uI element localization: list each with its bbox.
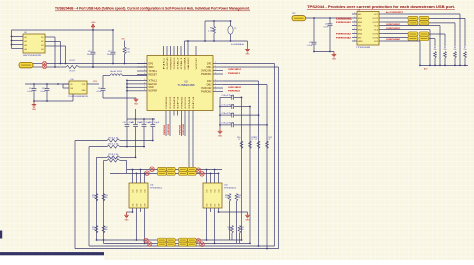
wire OUT2 to beads	[384, 21, 408, 23]
svg-text:OUT3: OUT3	[372, 34, 378, 36]
ground symbol crystal	[247, 46, 249, 49]
svg-text:OVRCUR2Z: OVRCUR2Z	[228, 87, 242, 89]
U11 top pin stubs	[132, 170, 134, 184]
capacitor C6	[231, 95, 233, 100]
svg-text:DM4: DM4	[189, 95, 191, 109]
capacitor C12	[143, 119, 145, 124]
svg-text:OVRCUR3Z: OVRCUR3Z	[386, 28, 401, 30]
svg-text:15k: 15k	[105, 229, 108, 231]
svg-text:RCOT: RCOT	[70, 71, 76, 73]
svg-text:IO3: IO3	[214, 190, 216, 193]
capacitor C10	[126, 119, 128, 124]
wire right col F	[236, 201, 238, 243]
resistor R12	[124, 41, 126, 48]
svg-text:0.1uF: 0.1uF	[40, 91, 46, 93]
IC U10 body	[69, 81, 87, 94]
U12 bottom pin stubs	[206, 208, 208, 212]
resistor R4	[434, 52, 437, 59]
ferrite bead bottom row B	[158, 242, 167, 246]
svg-text:DP2: DP2	[207, 81, 212, 83]
svg-text:OVRCUR1Z: OVRCUR1Z	[228, 69, 242, 71]
capacitor C11	[135, 119, 137, 124]
svg-text:2: 2	[215, 65, 216, 67]
svg-text:GANGED: GANGED	[187, 57, 190, 70]
svg-text:15k: 15k	[92, 229, 95, 231]
wire stub top pins	[137, 63, 147, 65]
wire OUT3 to beads	[384, 33, 408, 35]
U5 top pin stubs	[163, 46, 165, 56]
svg-text:IO5: IO5	[206, 204, 208, 207]
crystal Y1	[230, 21, 232, 26]
wire row cap C8	[220, 114, 231, 116]
ferrite bead bottom row A	[179, 238, 188, 242]
svg-text:4.7uF: 4.7uF	[96, 91, 102, 93]
svg-text:SUSPND: SUSPND	[167, 57, 169, 70]
svg-text:RESET: RESET	[149, 75, 158, 77]
svg-text:GND: GND	[358, 41, 363, 43]
wire OVRCUR3 net drop	[169, 116, 171, 137]
resistor R28	[228, 194, 231, 202]
svg-text:OVRCUR1: OVRCUR1	[201, 70, 212, 72]
wire row cap C7	[220, 106, 231, 108]
wire DP2 route	[223, 80, 259, 82]
wire U8 pin to node	[50, 36, 55, 38]
capacitor C11 lower lead	[135, 127, 137, 157]
wire crystal ground drop	[247, 41, 249, 46]
svg-text:R19 1.5k: R19 1.5k	[109, 157, 119, 159]
resistor R30	[231, 226, 234, 234]
resistor R17	[107, 145, 120, 148]
svg-text:PWRON4Z: PWRON4Z	[336, 37, 352, 40]
svg-text:TPD4S012: TPD4S012	[224, 188, 236, 190]
wire OUT1 to beads	[384, 17, 408, 19]
power port +5V0	[92, 27, 94, 30]
svg-text:7: 7	[144, 86, 145, 88]
svg-text:TSTPLL: TSTPLL	[149, 71, 158, 73]
svg-text:OUT4: OUT4	[372, 38, 378, 40]
no-ERC marker bottom right B	[200, 242, 205, 247]
U10 output wire	[87, 83, 99, 85]
JP1 pin wires	[33, 63, 42, 65]
wire row cap C9	[220, 124, 231, 126]
svg-text:IO1: IO1	[132, 190, 134, 193]
resistor R8 feedback	[213, 21, 215, 27]
capacitor C16 lead	[92, 30, 94, 52]
wire col cap1 vertical	[241, 97, 243, 240]
svg-text:OVRCUR3Z: OVRCUR3Z	[168, 123, 170, 135]
wire row R17	[89, 146, 107, 148]
resistor R20	[240, 141, 243, 149]
+5V0 rail wire	[12, 29, 114, 31]
wire DM3 drop	[188, 116, 190, 170]
wire bead2 out	[429, 22, 455, 24]
resistor R18	[107, 156, 120, 159]
wire OC2 route	[384, 25, 440, 27]
wire gnd symbol stem to cap row	[135, 109, 137, 119]
ferrite bead top row B	[179, 171, 188, 175]
svg-text:PWRON3Z: PWRON3Z	[164, 124, 166, 135]
no-ERC marker bottom left B	[147, 242, 152, 247]
svg-text:A4: A4	[25, 48, 27, 51]
svg-text:PWRON2Z: PWRON2Z	[336, 22, 352, 24]
wire row R16	[75, 140, 107, 142]
svg-text:C9=27pF: C9=27pF	[222, 123, 235, 125]
svg-text:JP3: JP3	[292, 13, 295, 15]
wire net tie vertical	[126, 161, 128, 174]
svg-text:2: 2	[215, 79, 216, 81]
resistor RCOT	[66, 65, 79, 68]
svg-text:RCOT: RCOT	[70, 60, 76, 62]
svg-text:IO1: IO1	[206, 190, 208, 193]
svg-text:VCC: VCC	[196, 56, 198, 69]
wire OC4 vertical	[419, 41, 421, 65]
svg-text:TPS2044B: TPS2044B	[356, 47, 371, 49]
wire OC2 vertical	[439, 26, 441, 66]
U6 left pin stubs	[352, 13, 357, 15]
no-ERC marker row A right	[196, 168, 201, 173]
svg-text:B2: B2	[41, 41, 43, 43]
wire JP3 to U6	[306, 17, 353, 19]
wire right col H	[239, 233, 241, 243]
svg-text:TPS2044 - Provides over curren: TPS2044 - Provides over current protecti…	[307, 5, 455, 9]
svg-text:OVRCUR2: OVRCUR2	[201, 88, 212, 90]
inductor L1 bead wire	[103, 75, 110, 77]
ground symbol U5 left	[135, 98, 137, 99]
resistor R16	[107, 139, 120, 142]
svg-text:C6=27pF: C6=27pF	[222, 95, 235, 97]
ferrite bead bottom row A	[187, 238, 196, 242]
svg-text:GND: GND	[134, 104, 139, 106]
ferrite bead bottom row A	[166, 238, 175, 242]
resistor R29	[235, 194, 238, 202]
svg-text:IO7: IO7	[140, 204, 142, 207]
svg-text:5: 5	[144, 79, 145, 81]
svg-text:GND: GND	[125, 220, 130, 222]
svg-text:IO2: IO2	[136, 190, 138, 193]
capacitor C8	[231, 113, 233, 118]
resistor R24	[95, 194, 98, 202]
svg-text:NC: NC	[163, 56, 165, 70]
sheet lower-left outside margin	[0, 255, 104, 260]
svg-text:OUT1: OUT1	[372, 18, 378, 20]
svg-text:15k: 15k	[454, 49, 457, 51]
U12 top pin stubs	[206, 170, 208, 184]
svg-text:B3: B3	[41, 45, 43, 47]
wire port3 row A	[127, 169, 222, 171]
svg-text:4.7uF: 4.7uF	[323, 26, 329, 28]
U5 bottom pin stubs	[165, 111, 167, 116]
svg-text:DM0: DM0	[149, 67, 155, 69]
svg-text:+5V0: +5V0	[91, 22, 97, 24]
resistor R19	[107, 159, 120, 162]
svg-text:2: 2	[215, 62, 216, 64]
svg-text:TPD4S012: TPD4S012	[150, 188, 162, 190]
svg-text:PWRON3: PWRON3	[166, 96, 168, 109]
svg-text:25uF: 25uF	[87, 54, 92, 56]
wire pulldown rail	[420, 64, 468, 66]
resistor R23	[266, 141, 269, 149]
wire bottom loop D	[75, 248, 279, 250]
svg-text:GND: GND	[246, 54, 251, 56]
svg-text:C10: C10	[123, 122, 126, 124]
wire DP3 drop	[192, 116, 194, 174]
capacitor C20	[313, 18, 315, 42]
no-ERC marker on JP1 wires	[42, 62, 46, 66]
IC U12 ESD body	[203, 183, 222, 208]
wire regulator ground rail	[34, 100, 73, 102]
ground symbol U11	[126, 212, 128, 215]
svg-text:2: 2	[215, 83, 216, 85]
wire row R19	[104, 160, 108, 162]
wire U12 to bottom rows	[206, 212, 208, 240]
svg-text:EEDATA: EEDATA	[183, 57, 186, 70]
resistor R27	[102, 226, 105, 234]
svg-text:IO5: IO5	[132, 204, 134, 207]
ferrite bead top row A	[166, 167, 175, 171]
wire XTAL2 up	[184, 41, 186, 46]
IC U6 TPS2044 body	[357, 12, 379, 46]
svg-text:DP1: DP1	[207, 63, 212, 65]
ferrite bead port1 a2	[419, 16, 429, 20]
U8 left pins bus wire	[11, 30, 13, 49]
svg-text:PWRON4Z: PWRON4Z	[179, 124, 182, 135]
wire port1 DM vertical	[278, 67, 280, 249]
ferrite bead port3 a2	[419, 32, 429, 36]
U10 bottom pin to ground rail	[72, 94, 74, 101]
svg-text:XTAL1: XTAL1	[149, 79, 158, 82]
svg-text:15k: 15k	[464, 49, 467, 51]
svg-text:OVRCUR4Z: OVRCUR4Z	[182, 123, 185, 135]
svg-text:IO2: IO2	[210, 190, 212, 193]
svg-text:PWRON1: PWRON1	[201, 74, 212, 76]
svg-text:A1: A1	[25, 36, 27, 39]
svg-text:IO7: IO7	[214, 204, 216, 207]
svg-text:B4: B4	[41, 49, 43, 51]
svg-text:OVRCUR3: OVRCUR3	[170, 96, 172, 109]
capacitor C9	[231, 123, 233, 128]
wire OUT4 to beads	[384, 37, 408, 39]
capacitor C14	[33, 84, 35, 88]
svg-text:OUT2: OUT2	[372, 22, 378, 24]
wire bottom loop C	[89, 245, 275, 247]
wire col cap4 vertical	[266, 85, 268, 249]
svg-text:DM1: DM1	[207, 67, 213, 69]
svg-text:XTAL2: XTAL2	[176, 56, 179, 69]
svg-text:C7=27pF: C7=27pF	[222, 104, 235, 106]
wire DM0 upper	[47, 63, 147, 65]
sheet border bottom-left bar	[0, 252, 104, 255]
svg-text:A2: A2	[25, 40, 27, 43]
wire crystal left vertical	[204, 21, 206, 41]
svg-text:PWRON1Z: PWRON1Z	[228, 73, 241, 75]
wire left loop vertical A	[74, 141, 76, 249]
svg-text:15k: 15k	[225, 197, 228, 199]
resistor R7	[464, 52, 467, 59]
wire left loop vertical B	[88, 147, 90, 246]
svg-text:A3: A3	[25, 44, 27, 47]
svg-text:15k: 15k	[92, 197, 95, 199]
wire bottom row A	[97, 239, 242, 241]
svg-text:IO6: IO6	[136, 204, 138, 207]
wire cap row horizontal	[127, 118, 155, 120]
wire bead4 out	[429, 38, 435, 40]
no-ERC marker bottom left A	[144, 238, 149, 243]
svg-text:GND: GND	[149, 87, 154, 89]
ferrite bead port1 a1	[408, 16, 418, 20]
capacitor C13	[152, 119, 154, 124]
svg-text:1.5k: 1.5k	[126, 51, 130, 53]
svg-text:PWRON2: PWRON2	[201, 91, 212, 93]
capacitor C15	[46, 84, 48, 88]
svg-text:C13: C13	[148, 122, 151, 124]
svg-text:GND: GND	[32, 109, 37, 111]
svg-text:OVRCUR4Z: OVRCUR4Z	[386, 38, 401, 41]
ground symbol U12	[247, 212, 249, 215]
no-ERC marker row B right	[200, 172, 205, 177]
svg-text:3mH 10%: 3mH 10%	[110, 71, 122, 73]
wire caps gnd bus	[219, 97, 221, 128]
wire OC4 route	[384, 40, 420, 42]
svg-text:27: 27	[255, 139, 257, 141]
U8 left pin stubs	[16, 36, 23, 38]
wire left col C	[96, 157, 98, 240]
U11 ground wire	[127, 211, 133, 213]
U11 bottom pin stubs	[132, 208, 134, 212]
wire row cap C6	[220, 96, 231, 98]
svg-text:C11: C11	[131, 122, 134, 124]
resistor R22	[257, 141, 260, 149]
resistor R21	[249, 141, 252, 149]
wire col cap3 vertical	[258, 81, 260, 246]
sheet border left edge mark	[0, 231, 2, 239]
wire U8 pin2 down	[50, 41, 61, 43]
svg-text:TSTMODE: TSTMODE	[174, 57, 176, 70]
U12 ground wire	[219, 211, 248, 213]
capacitor C17 lead	[112, 30, 114, 52]
ferrite bead top row A	[158, 167, 167, 171]
ferrite bead top row B	[166, 171, 175, 175]
capacitor C19	[329, 18, 331, 24]
svg-text:2: 2	[215, 90, 216, 92]
svg-text:15k: 15k	[241, 229, 244, 231]
capacitor C13 lower lead	[152, 127, 154, 141]
ferrite bead port3 a1	[408, 32, 418, 36]
connector JP3	[292, 16, 306, 21]
svg-text:TUSB2046B - 4 Port USB Hub (fu: TUSB2046B - 4 Port USB Hub (full/low spe…	[55, 7, 250, 11]
wire port3 row B	[110, 172, 218, 174]
ferrite bead bottom row A	[158, 238, 167, 242]
svg-text:IO3: IO3	[140, 190, 142, 193]
svg-text:DP0: DP0	[149, 63, 154, 65]
svg-text:1.5M: 1.5M	[208, 30, 213, 32]
svg-text:GND: GND	[218, 136, 223, 138]
svg-text:XTAL1: XTAL1	[180, 56, 183, 69]
wire DM1 route	[223, 66, 279, 68]
svg-text:R16 1.5k: R16 1.5k	[109, 137, 119, 139]
wire U11 to bottom rows	[136, 212, 138, 240]
svg-text:PWRDWN: PWRDWN	[170, 57, 172, 69]
wire row R18	[97, 156, 108, 158]
svg-text:6.000MHz: 6.000MHz	[231, 44, 244, 46]
wire OC1 route	[384, 13, 460, 15]
wire col cap2 vertical	[249, 107, 251, 244]
U10 left pin stub	[63, 83, 69, 85]
wire DP0 lower segment left	[47, 66, 66, 68]
resistor R25	[102, 194, 105, 202]
wire OVRCUR4 net drop	[184, 116, 186, 137]
svg-text:27: 27	[238, 139, 240, 141]
wire bead1 out	[429, 17, 465, 19]
wire DP0 lower segment right	[79, 66, 147, 68]
capacitor C10 lower lead	[126, 127, 128, 147]
U5 right pin stubs	[213, 63, 223, 65]
ferrite bead top row A	[187, 167, 196, 171]
wire OC3 route	[384, 29, 430, 31]
U8 right pin stubs	[45, 36, 50, 38]
svg-text:EECLK: EECLK	[149, 84, 158, 86]
resistor R6	[454, 52, 457, 59]
svg-text:TLV70033DBVR: TLV70033DBVR	[68, 96, 89, 98]
svg-text:GND: GND	[82, 90, 87, 92]
svg-text:0.1uF: 0.1uF	[27, 91, 33, 93]
no-ERC marker row A left	[150, 167, 155, 172]
wire left col D	[103, 161, 105, 244]
svg-text:R18 1.5k: R18 1.5k	[109, 154, 119, 156]
wire GND bus vertical left of U5	[126, 80, 128, 119]
no-ERC marker bottom right A	[196, 239, 201, 244]
resistor R26	[95, 226, 98, 234]
wire bead3 out	[429, 33, 445, 35]
svg-text:15k: 15k	[444, 49, 447, 51]
svg-text:0.1uF: 0.1uF	[307, 45, 313, 47]
IC U11 ESD body	[129, 183, 148, 208]
svg-text:GND: GND	[332, 59, 337, 61]
no-ERC marker row B left	[145, 171, 150, 176]
svg-text:C12: C12	[140, 122, 143, 124]
svg-text:IO8: IO8	[218, 204, 220, 207]
capacitor C7	[231, 104, 233, 109]
svg-text:6: 6	[144, 82, 145, 84]
wire PWRON4 net drop	[181, 116, 183, 137]
wire DM2 route	[223, 84, 267, 86]
svg-text:C8=27pF: C8=27pF	[222, 113, 235, 115]
svg-text:5V0: 5V0	[121, 39, 124, 41]
wire port1 DP vertical	[274, 64, 276, 247]
wire right col E	[229, 201, 231, 240]
svg-text:2: 2	[215, 72, 216, 74]
wire OC3 vertical	[429, 30, 431, 66]
svg-text:27: 27	[251, 139, 253, 141]
ground symbol regulator	[33, 101, 35, 105]
ferrite bead top row B	[187, 171, 196, 175]
svg-text:B1: B1	[41, 37, 43, 39]
svg-text:2: 2	[215, 86, 216, 88]
svg-text:IO6: IO6	[210, 204, 212, 207]
capacitor C12 lower lead	[143, 127, 145, 147]
svg-text:IO4: IO4	[218, 190, 220, 193]
wire C18 to ground	[103, 97, 136, 99]
U5 left pin stubs	[137, 79, 147, 81]
wire gnd rail TPS	[314, 51, 334, 53]
wire PWRON3 net drop	[165, 116, 167, 137]
wire crystal top rail	[205, 20, 231, 22]
svg-text:27: 27	[268, 139, 270, 141]
ferrite bead port1 b2	[419, 21, 429, 25]
resistor R5	[444, 52, 447, 59]
ground symbol caps	[219, 128, 221, 131]
svg-text:25uF: 25uF	[107, 54, 112, 56]
ground symbol TPS2044	[333, 52, 335, 55]
